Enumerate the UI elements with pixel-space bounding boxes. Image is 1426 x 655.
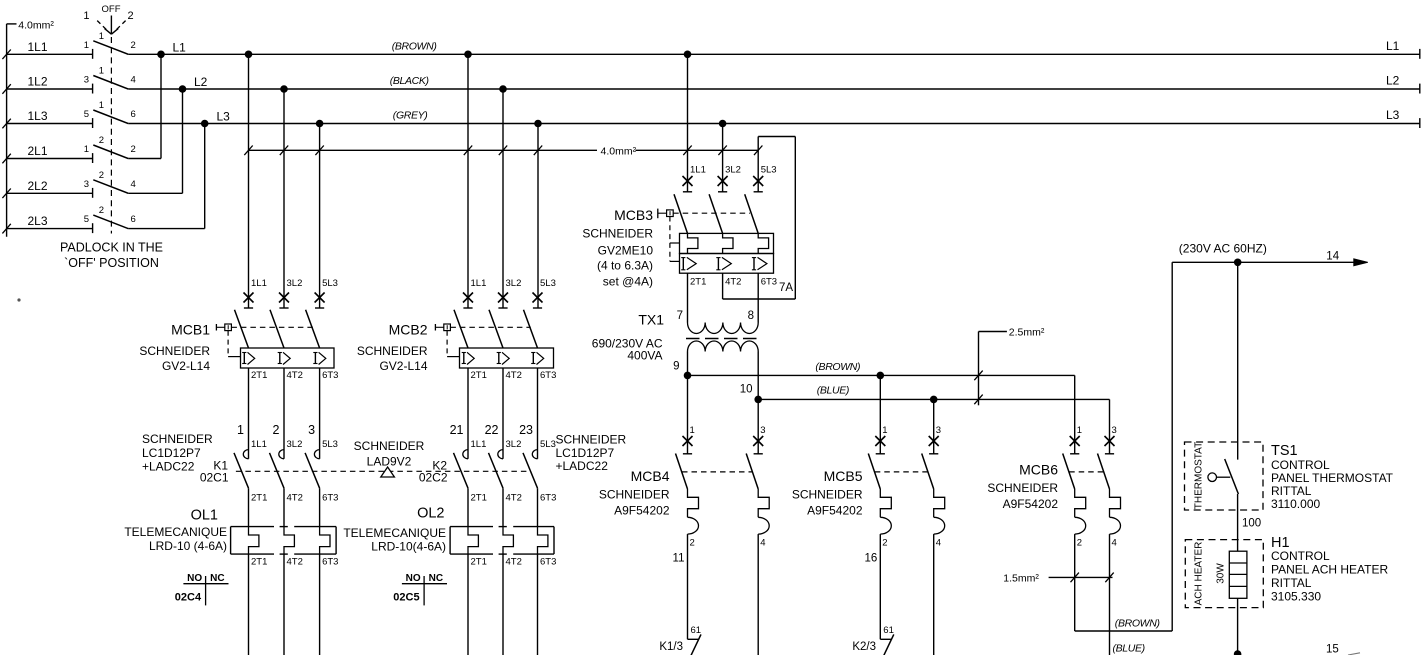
circuit breaker MCB2 SCHNEIDER GV2-L14: [357, 278, 557, 381]
svg-text:NC: NC: [210, 573, 224, 584]
svg-text:4T2: 4T2: [506, 370, 522, 381]
wire 230V BROWN: [688, 374, 1075, 376]
bus L2 (BLACK): [128, 84, 1420, 94]
svg-text:SCHNEIDER: SCHNEIDER: [139, 344, 210, 358]
disconnect switch pole 2L1: [7, 135, 136, 163]
svg-text:2: 2: [273, 423, 280, 437]
svg-text:02C1: 02C1: [200, 471, 229, 485]
svg-text:2T1: 2T1: [471, 557, 487, 568]
svg-text:MCB3: MCB3: [614, 207, 653, 223]
svg-text:7A: 7A: [779, 282, 793, 294]
cable group 4.0mm2: [244, 145, 762, 157]
svg-text:8: 8: [748, 310, 754, 322]
svg-text:A9F54202: A9F54202: [807, 504, 863, 518]
svg-text:9: 9: [673, 361, 679, 373]
circuit breaker MCB5 SCHNEIDER A9F54202: [792, 425, 945, 548]
stray mark: [17, 298, 20, 301]
label (GREY): [393, 110, 428, 122]
node L3-MCB1: [316, 120, 324, 128]
svg-text:5: 5: [84, 214, 89, 225]
disconnect switch pole 2L3: [7, 205, 136, 233]
label (BLACK): [390, 75, 429, 87]
wire brown to MCB6: [1074, 375, 1076, 453]
svg-text:22: 22: [485, 423, 499, 437]
svg-text:2: 2: [128, 10, 134, 22]
svg-text:2T1: 2T1: [251, 370, 267, 381]
cable marker 1.5mm2: [1003, 573, 1113, 585]
svg-text:(GREY): (GREY): [393, 110, 428, 122]
svg-text:1L2: 1L2: [28, 75, 48, 89]
node TX1 pin9: [684, 372, 692, 380]
svg-text:1: 1: [84, 144, 89, 155]
svg-text:2.5mm²: 2.5mm²: [1009, 327, 1045, 339]
svg-text:LRD-10 (4-6A): LRD-10 (4-6A): [149, 539, 227, 553]
svg-text:TS1: TS1: [1271, 443, 1298, 459]
svg-text:+LADC22: +LADC22: [556, 459, 609, 473]
thermostat TS1 RITTAL 3110.000: [1185, 442, 1394, 551]
wire blue to MCB6: [1109, 399, 1111, 453]
svg-text:4: 4: [936, 537, 941, 548]
svg-text:(BLACK): (BLACK): [390, 75, 429, 87]
svg-text:L3: L3: [1386, 108, 1400, 122]
svg-text:11: 11: [673, 553, 685, 565]
svg-text:ACH HEATER: ACH HEATER: [1194, 542, 1205, 606]
svg-text:4T2: 4T2: [725, 277, 741, 288]
svg-text:2: 2: [131, 40, 136, 51]
svg-text:5L3: 5L3: [761, 165, 777, 176]
bus L1 (BROWN): [128, 49, 1420, 59]
circuit breaker MCB4 SCHNEIDER A9F54202: [599, 425, 769, 548]
svg-text:1: 1: [83, 10, 89, 22]
svg-text:6: 6: [131, 214, 136, 225]
svg-text:3110.000: 3110.000: [1271, 497, 1320, 511]
svg-text:5: 5: [84, 109, 89, 120]
svg-text:6T3: 6T3: [761, 277, 777, 288]
node L3-MCB2: [534, 120, 542, 128]
node MCB5 brown: [877, 372, 885, 380]
label (BROWN) secondary: [815, 361, 860, 373]
overload relay OL1 TELEMECANIQUE LRD-10: [231, 527, 339, 655]
label (BROWN): [392, 41, 437, 53]
svg-text:2T1: 2T1: [251, 493, 267, 504]
svg-text:1: 1: [237, 423, 244, 437]
node H1 out: [1234, 650, 1242, 655]
svg-text:15: 15: [1326, 644, 1339, 655]
svg-text:PANEL THERMOSTAT: PANEL THERMOSTAT: [1271, 471, 1394, 485]
svg-text:(BROWN): (BROWN): [1115, 618, 1160, 630]
aux contact ref 02C4: [175, 573, 229, 605]
wire breaker output: [283, 368, 285, 459]
svg-text:6T3: 6T3: [540, 370, 556, 381]
label K2 type: [556, 433, 627, 474]
svg-text:4: 4: [1112, 537, 1117, 548]
svg-text:5L3: 5L3: [540, 278, 556, 289]
wire 230V rail with arrow 14: [1172, 242, 1368, 266]
node 230V TS1 tap: [1234, 259, 1242, 267]
svg-text:1: 1: [99, 31, 104, 42]
wire MCB4 pole2 down: [757, 534, 759, 655]
switch mechanical link (dashed): [110, 37, 112, 234]
node L1-MCB3: [684, 51, 692, 59]
svg-text:2T1: 2T1: [690, 277, 706, 288]
svg-text:PADLOCK IN THE: PADLOCK IN THE: [60, 241, 163, 255]
svg-text:SCHNEIDER: SCHNEIDER: [987, 481, 1058, 495]
wire MCB6 brown out: [1075, 262, 1173, 631]
svg-text:set @4A): set @4A): [603, 275, 653, 289]
svg-text:1: 1: [882, 425, 887, 436]
svg-text:02C2: 02C2: [419, 471, 448, 485]
svg-text:3105.330: 3105.330: [1271, 590, 1321, 604]
svg-text:1: 1: [99, 66, 104, 77]
wire 2L1 output to L1 node: [128, 54, 161, 158]
svg-text:SCHNEIDER: SCHNEIDER: [792, 488, 863, 502]
wire L3 to MCB1: [319, 124, 321, 309]
svg-text:MCB5: MCB5: [824, 468, 863, 484]
svg-text:NC: NC: [429, 573, 443, 584]
svg-text:K1/3: K1/3: [659, 641, 683, 653]
wire 230V BLUE: [758, 398, 1109, 400]
svg-text:4: 4: [760, 537, 765, 548]
node MCB5 blue: [930, 396, 938, 404]
label 15 with arrow: [1326, 644, 1360, 655]
wire L1 to MCB2: [467, 54, 469, 308]
svg-text:2T1: 2T1: [471, 370, 487, 381]
wire 7A series loop MCB3: [723, 137, 796, 300]
node L3: [201, 110, 230, 128]
wire breaker output: [467, 368, 469, 459]
svg-text:1.5mm²: 1.5mm²: [1003, 573, 1039, 585]
svg-text:1: 1: [690, 425, 695, 436]
svg-text:1L3: 1L3: [28, 109, 48, 123]
svg-text:(BROWN): (BROWN): [815, 361, 860, 373]
svg-text:6T3: 6T3: [540, 493, 556, 504]
circuit breaker MCB3 SCHNEIDER GV2ME10: [582, 165, 777, 289]
svg-text:OL1: OL1: [191, 508, 218, 524]
svg-text:4T2: 4T2: [287, 493, 303, 504]
svg-text:2: 2: [882, 537, 887, 548]
svg-text:4: 4: [131, 75, 136, 86]
wire 2L3 output to L3 node: [128, 124, 205, 229]
svg-text:K2/3: K2/3: [852, 641, 876, 653]
node L2-MCB2: [499, 85, 507, 93]
svg-text:4T2: 4T2: [506, 493, 522, 504]
wire L1 to MCB1: [248, 54, 250, 308]
disconnect switch pole 1L3: [7, 100, 136, 128]
node L2: [179, 75, 208, 93]
svg-text:TELEMECANIQUE: TELEMECANIQUE: [124, 525, 227, 539]
circuit breaker MCB6 SCHNEIDER A9F54202: [987, 425, 1120, 548]
wire breaker output: [537, 368, 539, 459]
svg-text:1L1: 1L1: [251, 439, 267, 450]
svg-text:NO: NO: [406, 573, 421, 584]
svg-text:1: 1: [99, 100, 104, 111]
wire MCB6 blue out: [1109, 534, 1111, 655]
svg-text:RITTAL: RITTAL: [1271, 484, 1312, 498]
svg-text:SCHNEIDER: SCHNEIDER: [599, 488, 670, 502]
svg-text:2: 2: [1077, 537, 1082, 548]
incoming feeder cable marker with 4.0mm2 label: [2, 20, 54, 237]
disconnect switch pole 2L2: [7, 170, 136, 198]
label OL1: [124, 508, 227, 554]
svg-text:LRD-10(4-6A): LRD-10(4-6A): [371, 540, 446, 554]
svg-text:6T3: 6T3: [322, 493, 338, 504]
svg-text:TX1: TX1: [638, 312, 664, 328]
svg-text:1L1: 1L1: [690, 165, 706, 176]
wire L1 to MCB3: [687, 54, 689, 192]
wire pin9 to MCB4: [687, 375, 689, 453]
svg-text:`OFF' POSITION: `OFF' POSITION: [64, 256, 159, 270]
label OL2: [343, 506, 446, 554]
svg-text:3: 3: [936, 425, 941, 436]
svg-text:21: 21: [450, 423, 464, 437]
label L2 right: [1386, 74, 1400, 88]
bus L3 (GREY): [128, 118, 1420, 128]
svg-text:3L2: 3L2: [506, 439, 522, 450]
node TX1 pin10: [754, 396, 762, 404]
svg-text:+LADC22: +LADC22: [142, 460, 195, 474]
svg-text:7: 7: [677, 310, 683, 322]
node L3-MCB3: [719, 120, 727, 128]
svg-text:6T3: 6T3: [540, 557, 556, 568]
svg-text:5L3: 5L3: [540, 439, 556, 450]
wire pin10 to MCB4: [757, 399, 759, 453]
wire blue to MCB5: [933, 399, 935, 453]
svg-text:23: 23: [519, 423, 533, 437]
svg-text:A9F54202: A9F54202: [1003, 497, 1059, 511]
heater H1 RITTAL 3105.330: [1185, 535, 1388, 654]
svg-text:L3: L3: [217, 110, 231, 124]
wire breaker output: [319, 368, 321, 459]
svg-text:14: 14: [1326, 251, 1339, 263]
svg-text:3: 3: [308, 423, 315, 437]
mechanical interlock K1-K2 (dashed): [236, 470, 531, 472]
svg-text:MCB1: MCB1: [171, 322, 210, 338]
switch OFF position indicator: [83, 4, 133, 34]
svg-text:3: 3: [84, 75, 89, 86]
svg-text:(BLUE): (BLUE): [1113, 643, 1145, 655]
svg-text:2L2: 2L2: [28, 179, 48, 193]
label (BLUE) bottom: [1113, 643, 1145, 655]
contactor K2 SCHNEIDER LC1D12P7: [419, 423, 557, 527]
svg-text:2: 2: [690, 537, 695, 548]
contact K2/3 under MCB5: [852, 534, 894, 655]
svg-text:LAD9V2: LAD9V2: [367, 454, 412, 468]
svg-text:L1: L1: [173, 41, 187, 55]
svg-text:6: 6: [131, 109, 136, 120]
svg-text:SCHNEIDER: SCHNEIDER: [357, 344, 428, 358]
aux contact ref 02C5: [393, 573, 447, 605]
wire MCB5 pole2 down: [933, 534, 935, 655]
svg-text:RITTAL: RITTAL: [1271, 576, 1312, 590]
svg-text:LC1D12P7: LC1D12P7: [556, 446, 615, 460]
disconnect switch pole 1L2: [7, 66, 136, 94]
svg-text:3: 3: [84, 179, 89, 190]
svg-text:2T1: 2T1: [251, 557, 267, 568]
svg-text:LC1D12P7: LC1D12P7: [142, 446, 201, 460]
cable marker 2.5mm2: [974, 327, 1045, 406]
svg-text:400VA: 400VA: [627, 349, 662, 363]
svg-text:30W: 30W: [1216, 563, 1227, 584]
circuit breaker MCB1 SCHNEIDER GV2-L14: [139, 278, 338, 381]
label PADLOCK note: [60, 241, 163, 271]
node L2-MCB1: [280, 85, 288, 93]
wire L2 to MCB1: [283, 89, 285, 308]
svg-text:3L2: 3L2: [287, 439, 303, 450]
svg-text:SCHNEIDER: SCHNEIDER: [354, 439, 425, 453]
svg-text:1L1: 1L1: [28, 40, 48, 54]
wire 2L2 output to L2 node: [128, 89, 182, 193]
svg-text:1L1: 1L1: [251, 278, 267, 289]
wire 230V to TS1: [1237, 262, 1239, 459]
label (BLUE) secondary: [817, 385, 849, 397]
svg-text:THERMOSTAT: THERMOSTAT: [1194, 442, 1205, 509]
svg-text:SCHNEIDER: SCHNEIDER: [556, 433, 627, 447]
svg-text:CONTROL: CONTROL: [1271, 458, 1330, 472]
svg-text:PANEL ACH HEATER: PANEL ACH HEATER: [1271, 563, 1388, 577]
wire L3 to MCB2: [537, 124, 539, 309]
svg-text:OFF: OFF: [102, 4, 121, 15]
svg-text:2L1: 2L1: [28, 144, 48, 158]
wire brown to MCB5: [879, 375, 881, 453]
svg-text:MCB2: MCB2: [389, 322, 428, 338]
contactor K1 SCHNEIDER LC1D12P7: [200, 423, 339, 527]
svg-text:(BLUE): (BLUE): [817, 385, 849, 397]
svg-text:10: 10: [740, 384, 753, 396]
interlock latch LAD9V2 symbol: [381, 467, 395, 477]
svg-text:3L2: 3L2: [287, 278, 303, 289]
svg-text:100: 100: [1242, 518, 1261, 530]
svg-text:1L1: 1L1: [471, 439, 487, 450]
svg-text:6T3: 6T3: [322, 370, 338, 381]
svg-text:MCB4: MCB4: [631, 468, 670, 484]
svg-text:2T1: 2T1: [471, 493, 487, 504]
overload relay OL2 TELEMECANIQUE LRD-10: [450, 527, 556, 655]
node L1-MCB2: [464, 51, 472, 59]
svg-text:GV2-L14: GV2-L14: [379, 359, 427, 373]
wire loop to MCB3 5L3: [757, 137, 759, 192]
svg-text:2: 2: [99, 170, 104, 181]
svg-text:4.0mm²: 4.0mm²: [601, 145, 637, 157]
svg-text:L1: L1: [1386, 39, 1400, 53]
svg-text:TELEMECANIQUE: TELEMECANIQUE: [343, 526, 446, 540]
svg-text:5L3: 5L3: [322, 439, 338, 450]
disconnect switch pole 1L1: [7, 31, 136, 59]
label K1 type: [142, 432, 213, 474]
label L3 right: [1386, 108, 1400, 122]
node L1-MCB1: [245, 51, 253, 59]
svg-text:6T3: 6T3: [322, 557, 338, 568]
svg-text:(230V AC 60HZ): (230V AC 60HZ): [1179, 242, 1267, 256]
transformer TX1 690/230V 400VA: [592, 273, 760, 399]
svg-text:3: 3: [760, 425, 765, 436]
svg-text:16: 16: [865, 553, 878, 565]
svg-text:3: 3: [1112, 425, 1117, 436]
svg-text:1: 1: [84, 40, 89, 51]
svg-text:02C5: 02C5: [393, 592, 419, 604]
contact K1/3 under MCB4: [659, 534, 701, 655]
wire L3 to MCB3: [722, 124, 724, 192]
node L1: [157, 41, 186, 59]
svg-text:3L2: 3L2: [506, 278, 522, 289]
svg-text:GV2ME10: GV2ME10: [598, 243, 654, 257]
svg-text:L2: L2: [1386, 74, 1400, 88]
svg-text:4.0mm²: 4.0mm²: [18, 20, 54, 32]
svg-text:(BROWN): (BROWN): [392, 41, 437, 53]
svg-text:61: 61: [691, 625, 702, 636]
svg-text:1: 1: [1077, 425, 1082, 436]
svg-text:(4 to 6.3A): (4 to 6.3A): [597, 259, 653, 273]
svg-text:CONTROL: CONTROL: [1271, 549, 1330, 563]
svg-text:4: 4: [131, 179, 136, 190]
label (BROWN) bottom: [1115, 618, 1160, 630]
svg-text:A9F54202: A9F54202: [614, 504, 670, 518]
svg-text:2: 2: [99, 205, 104, 216]
svg-text:SCHNEIDER: SCHNEIDER: [142, 432, 213, 446]
wire L2 to MCB2: [502, 89, 504, 308]
svg-text:2L3: 2L3: [28, 214, 48, 228]
svg-text:NO: NO: [187, 573, 202, 584]
svg-text:MCB6: MCB6: [1019, 462, 1058, 478]
svg-text:3L2: 3L2: [725, 165, 741, 176]
wire breaker output: [248, 368, 250, 459]
svg-text:4T2: 4T2: [287, 370, 303, 381]
svg-text:4T2: 4T2: [506, 557, 522, 568]
wire breaker output: [502, 368, 504, 459]
svg-text:2: 2: [131, 144, 136, 155]
svg-text:4T2: 4T2: [287, 557, 303, 568]
svg-text:02C4: 02C4: [175, 592, 202, 604]
svg-text:GV2-L14: GV2-L14: [162, 359, 210, 373]
label LAD9V2: [354, 439, 425, 469]
svg-text:2: 2: [99, 135, 104, 146]
svg-text:1L1: 1L1: [471, 278, 487, 289]
svg-text:5L3: 5L3: [322, 278, 338, 289]
svg-text:61: 61: [883, 625, 894, 636]
svg-text:OL2: OL2: [417, 506, 444, 522]
svg-text:L2: L2: [194, 75, 208, 89]
label L1 right: [1386, 39, 1400, 53]
svg-text:SCHNEIDER: SCHNEIDER: [582, 227, 653, 241]
